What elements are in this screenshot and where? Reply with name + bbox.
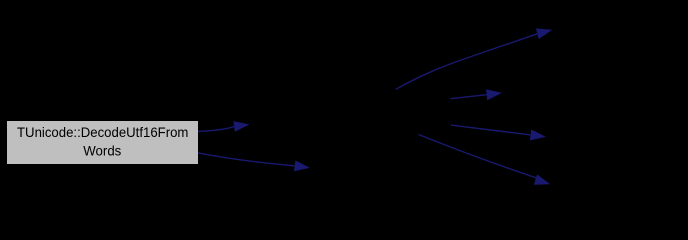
svg-text:TUnicode::DecodeUtf16From: TUnicode::DecodeUtf16From bbox=[17, 124, 188, 140]
edge: hidden node 1 to hidden node 3 (long curve to top right) bbox=[396, 29, 553, 90]
edge: hidden node 1 to hidden node 6 (curve to bottom right) bbox=[419, 135, 551, 185]
svg-text:Words: Words bbox=[83, 143, 121, 159]
edge: grey box to hidden callee node 1 bbox=[198, 121, 250, 132]
edge: hidden node 1 to hidden node 5 bbox=[451, 125, 546, 140]
node: TUnicode::DecodeUtf16FromWords (current node, grey box) bbox=[7, 121, 199, 165]
edge: hidden node 1 to hidden node 4 (short arrow) bbox=[451, 89, 503, 100]
edge: grey box to hidden callee node 2 bbox=[198, 153, 310, 171]
